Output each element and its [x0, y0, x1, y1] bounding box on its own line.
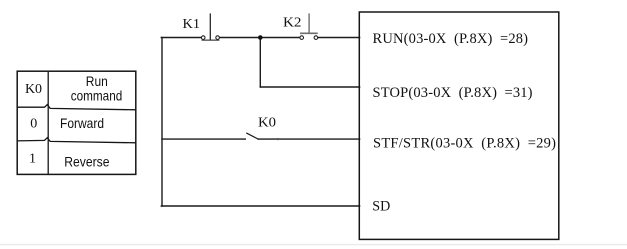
svg-text:RUN(03-0X (P.8X) =28): RUN(03-0X (P.8X) =28) — [373, 31, 529, 47]
svg-text:SD: SD — [372, 199, 390, 215]
svg-text:Forward: Forward — [60, 115, 104, 131]
svg-text:0: 0 — [30, 117, 37, 132]
svg-text:command: command — [71, 88, 123, 104]
svg-text:K2: K2 — [283, 16, 302, 31]
svg-text:STOP(03-0X (P.8X) =31): STOP(03-0X (P.8X) =31) — [373, 85, 533, 101]
svg-text:K1: K1 — [183, 17, 201, 32]
svg-text:1: 1 — [29, 152, 36, 167]
svg-text:Reverse: Reverse — [64, 153, 109, 169]
svg-text:STF/STR(03-0X (P.8X) =29): STF/STR(03-0X (P.8X) =29) — [373, 135, 556, 151]
svg-text:K0: K0 — [258, 116, 276, 131]
svg-text:K0: K0 — [25, 82, 42, 97]
